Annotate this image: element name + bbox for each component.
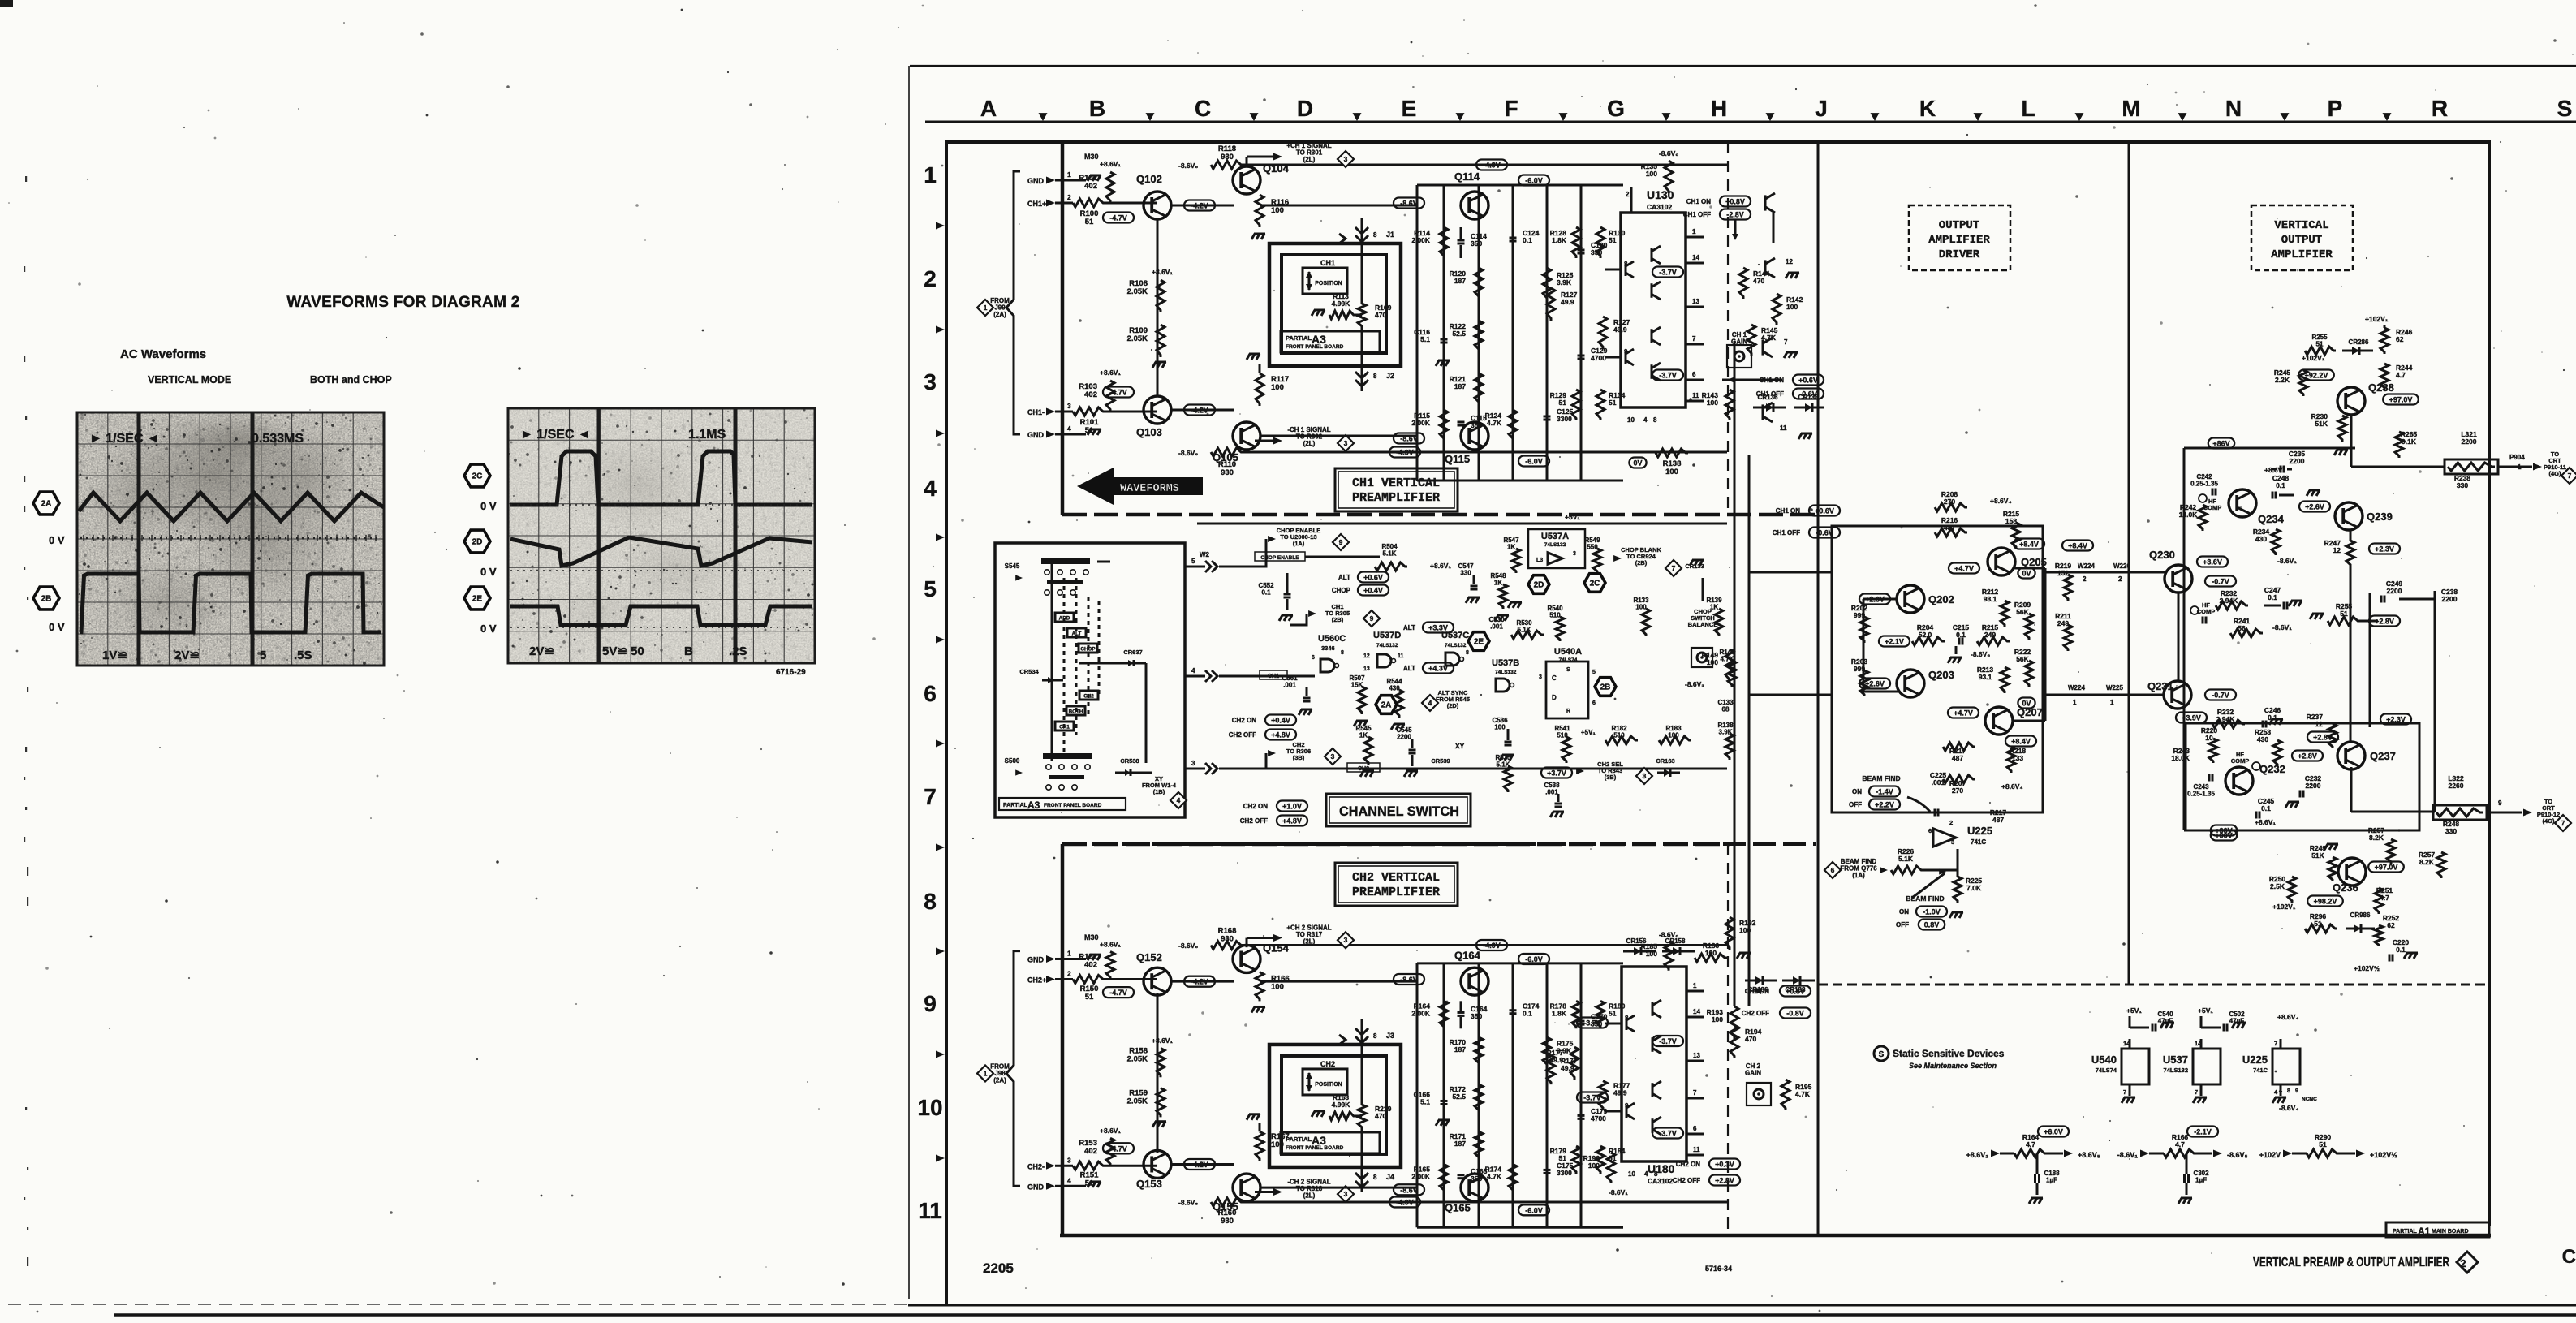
- svg-text:1K: 1K: [1494, 580, 1502, 587]
- svg-text:BEAM FIND: BEAM FIND: [1906, 894, 1944, 903]
- svg-text:-4.2V: -4.2V: [1191, 407, 1208, 415]
- resistor R174 4.7K: [1509, 1164, 1517, 1192]
- flag 2E hexagon: [464, 587, 490, 610]
- CH1 preamp block bottom border: [1062, 513, 1818, 517]
- ground input 1: [1062, 958, 1086, 960]
- svg-text:2: 2: [1949, 819, 1953, 826]
- svg-text:U537D: U537D: [1373, 631, 1401, 640]
- svg-text:0.1: 0.1: [2276, 481, 2285, 489]
- svg-text:W2: W2: [1200, 551, 1210, 558]
- grid tick: [1559, 113, 1568, 121]
- connector J1: [1355, 227, 1368, 234]
- svg-text:+0.4V: +0.4V: [1363, 587, 1383, 595]
- svg-text:-4.9V: -4.9V: [1483, 162, 1501, 170]
- svg-text:249: 249: [2057, 619, 2069, 627]
- capacitor C175 3300: [1544, 1169, 1551, 1171]
- svg-text:CH1 VERTICAL: CH1 VERTICAL: [1352, 476, 1440, 490]
- svg-text:6: 6: [924, 681, 937, 706]
- grid tick: [1146, 113, 1155, 121]
- wire row continue y698: [1219, 566, 1250, 568]
- wire switch pole link: [1051, 560, 1053, 761]
- svg-text:J1: J1: [1386, 231, 1394, 239]
- diode CR158: [1662, 950, 1695, 953]
- svg-text:-0.6V: -0.6V: [1799, 390, 1817, 399]
- svg-text:VERTICAL MODE: VERTICAL MODE: [148, 374, 231, 386]
- svg-text:+2.6V: +2.6V: [1865, 680, 1885, 688]
- waveform 2E trace: [510, 606, 812, 625]
- wire switch row y698: [1185, 566, 1205, 568]
- pill -4.7V near Q103: [1103, 387, 1134, 398]
- resistor R194 470: [1730, 1026, 1738, 1058]
- svg-text:52.5: 52.5: [1452, 330, 1466, 338]
- svg-text:PARTIAL: PARTIAL: [1286, 1136, 1312, 1143]
- CH2 preamp block top border: [1062, 842, 1730, 847]
- node CH2bar TO R306: [1265, 753, 1268, 769]
- svg-text:M30: M30: [1084, 933, 1099, 942]
- svg-text:930: 930: [1221, 468, 1234, 477]
- svg-text:S500: S500: [1005, 757, 1020, 765]
- svg-text:BEAM FIND: BEAM FIND: [1862, 774, 1900, 782]
- svg-text:Q115: Q115: [1445, 453, 1470, 465]
- svg-text:Static Sensitive Devices: Static Sensitive Devices: [1893, 1048, 2005, 1059]
- svg-text:51: 51: [1085, 1179, 1094, 1188]
- pill -8.6V mid2: [1394, 1184, 1424, 1195]
- wire attenuator ladder 2: [1512, 185, 1514, 481]
- svg-text:9: 9: [1339, 538, 1343, 546]
- svg-text:(2A): (2A): [993, 311, 1006, 318]
- resistor R165 2.00K: [1440, 1164, 1448, 1192]
- svg-text:-4.9V: -4.9V: [1396, 449, 1414, 457]
- svg-text:+2.2V: +2.2V: [1875, 801, 1894, 809]
- svg-text:-1.0V: -1.0V: [1923, 908, 1941, 916]
- svg-text:8: 8: [1373, 373, 1377, 380]
- svg-text:Q205: Q205: [2021, 556, 2047, 568]
- wire switch row y833: [1185, 675, 1205, 678]
- svg-text:(4G): (4G): [2549, 470, 2562, 477]
- resistor R177 49.9: [1570, 1047, 1579, 1080]
- svg-text:6: 6: [1831, 866, 1835, 874]
- svg-text:51: 51: [1085, 993, 1094, 1002]
- pill +90V: [2211, 830, 2237, 841]
- transistor Q203: [1897, 670, 1924, 697]
- wire bottom page line upper: [908, 1304, 2576, 1307]
- connector chevron y947: [1205, 763, 1211, 774]
- svg-text:3.9K: 3.9K: [1557, 278, 1572, 287]
- svg-text:-6.0V: -6.0V: [1525, 177, 1543, 185]
- svg-text:(2A): (2A): [993, 1076, 1006, 1084]
- resistor R130 51: [1596, 227, 1605, 258]
- svg-text:430: 430: [1389, 685, 1400, 692]
- svg-text:M: M: [2122, 96, 2140, 121]
- svg-text:3: 3: [924, 369, 937, 394]
- ic U540 package: [2122, 1049, 2149, 1084]
- svg-text:-8.6V: -8.6V: [1400, 435, 1418, 443]
- svg-text:51: 51: [1609, 399, 1617, 407]
- svg-text:P904: P904: [2509, 454, 2525, 461]
- svg-text:CH1: CH1: [1320, 259, 1335, 267]
- svg-text:402: 402: [1084, 182, 1097, 191]
- svg-text:0V: 0V: [2022, 570, 2031, 578]
- wire Q4 to attenuator: [1260, 205, 1417, 207]
- svg-text:GND: GND: [1027, 955, 1045, 963]
- svg-text:Q236: Q236: [2333, 881, 2358, 894]
- wire Q102-Q103 link: [1157, 218, 1159, 397]
- node -CH 2 SIGNAL: [1246, 1187, 1247, 1199]
- wire top rail: [1243, 944, 1727, 946]
- svg-text:7: 7: [1672, 564, 1676, 572]
- svg-text:11: 11: [1780, 424, 1787, 432]
- svg-text:+97.0V: +97.0V: [2389, 396, 2413, 404]
- svg-text:+1.0V: +1.0V: [1282, 803, 1302, 811]
- svg-text:9: 9: [2498, 799, 2502, 807]
- svg-text:(2L): (2L): [1303, 1192, 1316, 1200]
- wire switch linkage dashed 1: [1063, 578, 1066, 753]
- wire q203-q202 bus: [1863, 598, 1898, 601]
- resistor R193 100: [1730, 1006, 1738, 1039]
- transistor Q237: [2337, 742, 2365, 769]
- svg-text:3: 3: [1951, 838, 1954, 846]
- resistor R120 187: [1475, 268, 1483, 299]
- svg-text:56K: 56K: [2016, 608, 2029, 616]
- transistor Q105: [1233, 422, 1260, 450]
- transistor Q153: [1144, 1150, 1171, 1178]
- svg-text:0.1: 0.1: [1523, 236, 1532, 244]
- svg-text:CHOP: CHOP: [1080, 647, 1095, 653]
- svg-text:-8.6V: -8.6V: [1400, 1186, 1418, 1194]
- transistor Q154: [1233, 945, 1260, 972]
- wire switch linkage dashed 3: [1088, 597, 1090, 716]
- svg-text:2V≌: 2V≌: [529, 644, 554, 658]
- svg-text:CR637: CR637: [1123, 649, 1142, 656]
- svg-text:470: 470: [1375, 1112, 1386, 1120]
- svg-text:2E: 2E: [472, 595, 483, 604]
- svg-text:CHOP: CHOP: [1332, 587, 1351, 594]
- svg-text:1: 1: [1693, 982, 1697, 989]
- svg-text:+8.6V₁: +8.6V₁: [2264, 466, 2285, 474]
- svg-text:+0.6V: +0.6V: [1363, 574, 1383, 582]
- resistor R149 100: [1725, 649, 1734, 682]
- svg-text:74LS132: 74LS132: [1495, 670, 1517, 675]
- svg-text:14: 14: [1693, 1008, 1700, 1015]
- wire ladder left vertical: [1416, 963, 1419, 1227]
- svg-text:9: 9: [924, 991, 937, 1016]
- wire Q103 to Q105: [1170, 409, 1234, 412]
- svg-text:8: 8: [1653, 416, 1657, 424]
- svg-text:CH1 OFF: CH1 OFF: [1756, 390, 1784, 398]
- wire header underline: [925, 121, 2576, 123]
- svg-text:CH2 OFF: CH2 OFF: [1742, 1010, 1769, 1017]
- wire q237 down: [2350, 767, 2353, 812]
- svg-text:ALT: ALT: [1338, 574, 1350, 581]
- transistor Q155: [1233, 1174, 1260, 1201]
- pill +4.7V q207: [1948, 708, 1979, 718]
- pill +8.4V driver: [2014, 539, 2044, 549]
- capacitor C129 4700: [1578, 355, 1585, 357]
- transistor Q231: [2164, 681, 2191, 709]
- svg-text:+0.8V: +0.8V: [1786, 988, 1805, 996]
- wire Q152 to Q154: [1170, 980, 1234, 983]
- svg-text:CH1 OFF: CH1 OFF: [1683, 211, 1711, 218]
- svg-text:-0.7V: -0.7V: [2212, 578, 2229, 586]
- svg-text:4.7K: 4.7K: [1487, 419, 1502, 427]
- svg-text:CR158: CR158: [1665, 937, 1686, 945]
- resistor R108 2.05K: [1157, 280, 1165, 312]
- transistor Q234: [2229, 489, 2256, 517]
- svg-text:7: 7: [1693, 1089, 1697, 1097]
- svg-text:74LS132: 74LS132: [1544, 542, 1566, 548]
- resistor R178 1.8K: [1572, 1001, 1580, 1028]
- svg-text:470: 470: [1753, 277, 1764, 285]
- svg-text:3: 3: [1344, 155, 1348, 163]
- svg-text:C: C: [2562, 1246, 2576, 1268]
- pill -3.7V: [1652, 267, 1683, 278]
- svg-text:-8.6V₆: -8.6V₆: [1178, 162, 1198, 170]
- svg-text:-3.7V: -3.7V: [1659, 269, 1677, 277]
- svg-text:4.7: 4.7: [2026, 1140, 2035, 1148]
- resistor R219 470: [1358, 1105, 1366, 1129]
- svg-text:OUTPUT: OUTPUT: [1939, 219, 1979, 232]
- node FROM J98: [977, 1065, 993, 1081]
- wire ladder bottom: [1417, 480, 1623, 482]
- svg-text:1: 1: [1692, 228, 1696, 235]
- svg-text:74LS132: 74LS132: [1445, 643, 1467, 649]
- svg-text:49.9: 49.9: [1561, 298, 1574, 306]
- resistor R166 100: [1256, 972, 1264, 1002]
- svg-text:M30: M30: [1084, 153, 1099, 161]
- svg-text:0.25-1.35: 0.25-1.35: [2190, 481, 2218, 488]
- wire 0V axis 2C: [510, 504, 812, 506]
- svg-text:L: L: [2021, 96, 2035, 121]
- svg-text:U225: U225: [2242, 1054, 2268, 1066]
- svg-text:0 V: 0 V: [480, 500, 497, 512]
- wire mid node right: [2360, 620, 2378, 623]
- svg-text:13: 13: [1693, 1052, 1700, 1059]
- svg-text:CR156: CR156: [1626, 937, 1647, 945]
- wire bottom rail: [1243, 451, 1727, 454]
- svg-text:5V≌ 50: 5V≌ 50: [602, 644, 644, 658]
- wire 0V axis 2E: [510, 627, 812, 628]
- transistor Q152: [1144, 967, 1171, 995]
- wire Q152-Q153 link: [1157, 993, 1159, 1153]
- svg-text:+4.8V: +4.8V: [1282, 817, 1302, 825]
- svg-text:100: 100: [1271, 383, 1284, 392]
- grid tick: [936, 844, 945, 851]
- svg-text:74LS74: 74LS74: [2096, 1067, 2117, 1074]
- svg-text:8: 8: [1341, 650, 1344, 656]
- svg-text:2C: 2C: [1590, 580, 1600, 588]
- ground q236 top: [2324, 844, 2328, 850]
- potentiometer chop balance: [1691, 648, 1712, 667]
- svg-text:187: 187: [1454, 1140, 1466, 1148]
- resistor R150 51: [1062, 978, 1073, 980]
- svg-text:+8.6V₁: +8.6V₁: [1100, 160, 1121, 168]
- wire Q55 to attenuator: [1260, 1187, 1417, 1189]
- pill -0.7V q231: [2205, 690, 2236, 700]
- svg-text:2: 2: [2460, 1257, 2466, 1269]
- svg-text:4: 4: [1177, 796, 1181, 804]
- grid tick: [1456, 113, 1465, 121]
- svg-text:A: A: [980, 96, 997, 121]
- resistor R121 187: [1475, 373, 1483, 404]
- svg-text:+92.2V: +92.2V: [2305, 372, 2328, 380]
- resistor R152 402: [1106, 952, 1114, 980]
- svg-text:741C: 741C: [1971, 838, 1986, 846]
- svg-text:+86V: +86V: [2212, 440, 2229, 448]
- svg-text:9: 9: [1624, 348, 1628, 356]
- resistor R195 4.7K: [1781, 1080, 1790, 1110]
- grid tick: [936, 222, 945, 230]
- resistor R101 51: [1062, 411, 1073, 413]
- svg-text:2.00K: 2.00K: [1411, 1009, 1431, 1017]
- flag 2D hexagon: [464, 530, 490, 553]
- resistor R159 2.05K: [1157, 1088, 1165, 1118]
- svg-text:+8.6V₄: +8.6V₄: [2277, 1013, 2299, 1021]
- svg-text:-6.0V: -6.0V: [1525, 458, 1543, 466]
- svg-text:1: 1: [1067, 949, 1071, 957]
- capacitor C116 5.1: [1441, 338, 1448, 341]
- wire w224b into q231: [2045, 694, 2165, 696]
- svg-text:1K: 1K: [1507, 544, 1515, 551]
- resistor R116 100: [1256, 195, 1264, 227]
- resistor R127b 49.9: [1547, 288, 1555, 321]
- pill +2.6V q202: [1859, 594, 1890, 605]
- wire +5V rail: [1197, 523, 1727, 525]
- wire bottom rail: [1243, 1200, 1727, 1203]
- svg-text:3300: 3300: [1557, 1169, 1572, 1177]
- svg-text:0.1: 0.1: [1523, 1009, 1532, 1017]
- svg-text:4: 4: [1428, 699, 1432, 707]
- svg-text:U540: U540: [2091, 1054, 2117, 1066]
- svg-text:-4.7V: -4.7V: [1109, 214, 1127, 222]
- label PARTIAL A3 FRONT PANEL BOARD: [999, 798, 1126, 810]
- capacitor C174 0.1: [1510, 1009, 1517, 1011]
- svg-text:P: P: [2328, 96, 2343, 121]
- svg-text:+2.8V: +2.8V: [1715, 1177, 1734, 1185]
- svg-text:S: S: [2557, 96, 2573, 121]
- transistor Q103: [1144, 396, 1171, 424]
- grid tick: [936, 430, 945, 437]
- svg-text:C: C: [1195, 96, 1211, 121]
- connector J2: [1355, 372, 1368, 378]
- svg-text:270: 270: [1952, 786, 1963, 795]
- svg-text:350: 350: [1471, 1012, 1482, 1020]
- wire out vert 2: [2434, 591, 2436, 812]
- svg-text:Q230: Q230: [2149, 549, 2175, 561]
- svg-text:74LS132: 74LS132: [2164, 1067, 2188, 1074]
- svg-text:PREAMPLIFIER: PREAMPLIFIER: [1352, 491, 1440, 505]
- svg-text:1: 1: [2110, 699, 2114, 706]
- svg-text:+8.6V₁: +8.6V₁: [1152, 268, 1173, 276]
- wire position window signal: [1361, 1019, 1363, 1105]
- svg-text:100: 100: [1271, 206, 1284, 215]
- node BEAM FIND FROM Q776: [1824, 862, 1841, 878]
- CH2 preamp block right border: [1727, 844, 1729, 1235]
- svg-text:13: 13: [1363, 666, 1370, 672]
- pill -4.7V near Q152: [1103, 987, 1134, 998]
- svg-text:OUTPUT: OUTPUT: [2281, 234, 2322, 247]
- svg-text:F: F: [1504, 96, 1518, 121]
- svg-text:5: 5: [260, 649, 266, 662]
- label box PARTIAL A1 MAIN BOARD: [2386, 1222, 2489, 1237]
- svg-text:POSITION: POSITION: [1315, 1082, 1342, 1088]
- svg-text:BOTH: BOTH: [1069, 709, 1083, 715]
- svg-text:9: 9: [2295, 1088, 2298, 1094]
- svg-text:H: H: [1711, 96, 1727, 121]
- wire page top edge line: [910, 65, 2576, 67]
- svg-text:FRONT PANEL BOARD: FRONT PANEL BOARD: [1286, 344, 1344, 350]
- svg-text:CH1 ON: CH1 ON: [1686, 198, 1711, 205]
- svg-text:CHANNEL SWITCH: CHANNEL SWITCH: [1339, 804, 1459, 819]
- wire attenuator ladder 3: [1546, 963, 1549, 1227]
- wire out vertical bus: [2369, 593, 2371, 727]
- svg-text:3: 3: [1344, 1190, 1348, 1198]
- transistor Q232: [2225, 767, 2253, 795]
- svg-text:6: 6: [1692, 371, 1696, 378]
- switch mode box ALT: [1067, 628, 1086, 637]
- svg-text:8: 8: [1373, 1174, 1377, 1181]
- svg-text:487: 487: [1952, 754, 1963, 762]
- wire q232 rail: [2184, 830, 2240, 832]
- svg-text:+2.6V: +2.6V: [2305, 503, 2324, 511]
- connector J4: [1355, 1173, 1368, 1179]
- svg-text:1.1MS: 1.1MS: [688, 428, 726, 442]
- svg-text:2V≌: 2V≌: [174, 649, 200, 662]
- svg-text:1: 1: [2073, 699, 2077, 706]
- svg-text:G: G: [1607, 96, 1625, 121]
- svg-text:0.1: 0.1: [1261, 589, 1271, 597]
- svg-text:-8.6V: -8.6V: [1400, 976, 1418, 984]
- transistor Q164: [1461, 967, 1488, 995]
- svg-text:CH2-: CH2-: [1027, 1162, 1045, 1170]
- svg-text:A1: A1: [2418, 1226, 2431, 1237]
- svg-text:ADD: ADD: [1059, 616, 1070, 622]
- svg-text:2.00K: 2.00K: [1411, 1172, 1431, 1180]
- svg-text:.001: .001: [1545, 789, 1558, 796]
- svg-text:ON: ON: [1899, 908, 1909, 916]
- svg-text:2.05K: 2.05K: [1127, 1055, 1148, 1064]
- ground ladder CH2: [1152, 1122, 1156, 1127]
- label PARTIAL A3 board CH1: [1281, 331, 1380, 352]
- front panel inner window: [1282, 255, 1386, 353]
- resistor R129 51: [1572, 390, 1580, 420]
- svg-text:+8.6V₄: +8.6V₄: [1990, 497, 2012, 505]
- label box CH2 VERTICAL PREAMPLIFIER: [1335, 863, 1458, 906]
- svg-text:49.9: 49.9: [1549, 1056, 1563, 1064]
- svg-text:8: 8: [1466, 650, 1469, 656]
- svg-text:-6.0V: -6.0V: [1525, 955, 1543, 963]
- svg-text:CR538: CR538: [1120, 757, 1139, 765]
- svg-text:BOTH and CHOP: BOTH and CHOP: [310, 374, 392, 386]
- svg-text:3: 3: [1191, 760, 1195, 767]
- svg-text:K: K: [1919, 96, 1936, 121]
- resistor R100 51: [1062, 202, 1073, 205]
- pill -0.7V q230: [2205, 576, 2236, 587]
- pill +3.7V: [1541, 768, 1572, 778]
- resistor R184 51: [1596, 1146, 1605, 1174]
- grid tick: [936, 1051, 945, 1058]
- svg-text:U540A: U540A: [1554, 647, 1582, 657]
- svg-text:51: 51: [1609, 236, 1617, 244]
- svg-text:2200: 2200: [2290, 457, 2305, 465]
- svg-text:-8.6V₁: -8.6V₁: [2277, 557, 2297, 565]
- svg-text:4700: 4700: [1591, 1114, 1606, 1123]
- svg-text:PARTIAL: PARTIAL: [2393, 1229, 2418, 1235]
- svg-text:4.99K: 4.99K: [1332, 1101, 1351, 1109]
- svg-text:CA3102: CA3102: [1647, 203, 1672, 211]
- resistor R158 2.05K: [1157, 1048, 1165, 1077]
- svg-text:CH1+: CH1+: [1027, 200, 1046, 208]
- svg-text:56K: 56K: [2016, 655, 2029, 663]
